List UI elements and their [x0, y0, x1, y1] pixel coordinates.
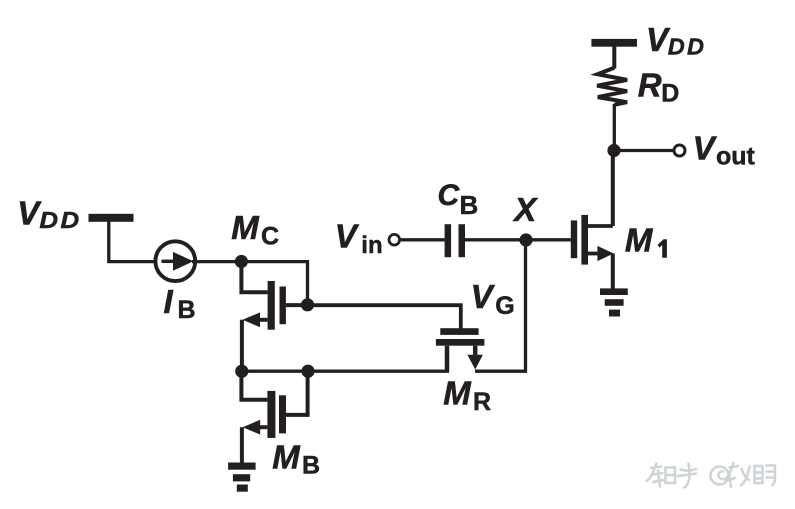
node X (dot) [519, 233, 532, 246]
MR gate bar [440, 328, 478, 335]
label Vin [335, 217, 383, 259]
svg-text:DD: DD [39, 208, 81, 234]
wire VDD bar to resistor [612, 46, 616, 69]
ground under MB [228, 463, 256, 492]
label IB [164, 283, 196, 324]
M1 gate bar [571, 220, 577, 258]
M1 drain lead [588, 224, 613, 228]
transistor MC (diode-connected, gate on right) [241, 262, 307, 371]
MC channel bar [268, 281, 275, 330]
label VDD (right) [646, 21, 706, 60]
node Vout (dot) [607, 144, 620, 157]
MC gate bar [280, 287, 286, 325]
label M1 [625, 222, 667, 259]
wire resistor to Vout node [613, 104, 616, 151]
node (dot) at MC source / MB drain [235, 365, 248, 378]
svg-text:D: D [661, 80, 679, 108]
MB gate lead [286, 371, 308, 415]
svg-text:out: out [716, 143, 756, 171]
svg-text:M: M [272, 439, 301, 476]
label MR [443, 375, 491, 416]
svg-text:V: V [471, 278, 496, 315]
gate junction dot [301, 298, 314, 311]
MB source wire down [240, 427, 244, 463]
supply bar VDD (left) [89, 214, 134, 222]
wire Vin to capacitor [401, 238, 445, 241]
svg-text:M: M [625, 222, 654, 259]
wire capacitor to node X to M1 gate [465, 238, 571, 241]
label RD [638, 66, 680, 107]
MR right lead with arrow [473, 346, 478, 356]
MC drain wire [241, 262, 267, 293]
wire MR source to node X column [475, 240, 526, 371]
MB gate bar [279, 395, 286, 433]
MR left lead [445, 346, 450, 372]
M1 drain wire up to Vout node [611, 151, 615, 227]
supply bar VDD (right) [591, 39, 637, 47]
MB source lead with arrow [256, 425, 267, 429]
svg-text:V: V [693, 129, 718, 166]
label VDD (left) [17, 194, 81, 233]
M1 channel bar [581, 215, 588, 265]
node (dot) at MB gate column [301, 365, 314, 378]
MC gate lead [286, 303, 308, 307]
wire Vout node to terminal [614, 149, 674, 152]
svg-text:X: X [512, 191, 538, 228]
MC source wire down [240, 320, 244, 371]
resistor RD (zigzag) [597, 68, 627, 105]
svg-text:R: R [638, 66, 662, 103]
svg-text:R: R [473, 388, 491, 416]
svg-text:in: in [361, 232, 382, 259]
svg-text:V: V [335, 217, 360, 254]
svg-text:C: C [261, 223, 279, 251]
svg-text:G: G [495, 292, 514, 320]
MR channel bar [436, 339, 485, 346]
MB channel bar [267, 391, 275, 438]
svg-text:B: B [178, 296, 196, 324]
svg-text:B: B [460, 190, 479, 220]
ground under M1 [600, 288, 628, 316]
svg-text:M: M [443, 375, 472, 412]
label CB [438, 179, 479, 220]
svg-text:M: M [231, 209, 260, 246]
svg-text:C: C [438, 179, 461, 212]
label Vout [693, 129, 756, 170]
transistor MB (diode-connected, gate on right) [241, 371, 307, 463]
svg-text:B: B [302, 451, 320, 479]
wire lower node row [242, 370, 449, 373]
output terminal (open circle) [674, 145, 685, 156]
wire from left VDD bar to current source [109, 221, 157, 262]
label MC [231, 209, 279, 250]
wire VG net (gate junction to MR gate) [308, 305, 461, 328]
current source IB [155, 241, 195, 281]
node MC (dot) [235, 255, 248, 268]
input terminal (open circle) [389, 234, 400, 245]
svg-text:DD: DD [668, 34, 706, 60]
watermark 知乎 @赵明 [647, 463, 776, 488]
M1 source lead with arrow [588, 252, 599, 256]
svg-text:I: I [164, 283, 174, 320]
wire from IB to node MC and down to gate junction [192, 262, 308, 300]
transistor MR (horizontal, gate on top) [436, 328, 485, 371]
capacitor CB [445, 224, 465, 257]
M1 source wire down to ground [611, 254, 615, 290]
label MB [272, 439, 320, 480]
label VG [471, 278, 515, 320]
MB drain wire [241, 371, 267, 400]
MC source lead with arrow [256, 318, 268, 322]
transistor M1 (gate on left) [571, 215, 614, 265]
